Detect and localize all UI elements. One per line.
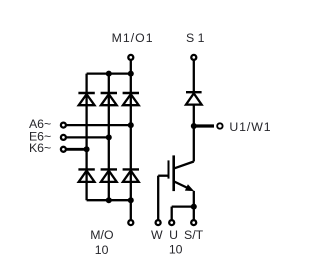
wire bottom rail (negative bus) <box>87 199 131 201</box>
terminal S/T <box>191 220 196 225</box>
wire middle column <box>108 74 110 201</box>
wire stub to U1/W1 terminal <box>194 124 214 127</box>
terminal U1/W1 <box>217 123 222 128</box>
diode bottom-right <box>123 169 139 182</box>
junction K6 / left column <box>84 146 90 152</box>
terminal W <box>156 220 161 225</box>
wire emitter to terminal S/T <box>193 191 195 220</box>
diode top-right <box>123 93 139 105</box>
junction emitter / U branch <box>191 204 197 210</box>
diode bottom-middle <box>101 169 117 182</box>
IGBT body bar <box>172 155 175 191</box>
svg-text:S/T: S/T <box>184 228 204 242</box>
junction E6 / middle column <box>106 134 112 140</box>
wire K6 to left column <box>66 148 86 151</box>
wire bottom rail to M/O terminal <box>130 200 132 219</box>
IGBT collector lead <box>174 162 193 169</box>
wire U branch vertical <box>171 207 173 220</box>
wire left column <box>85 74 87 201</box>
junction top rail / middle column <box>106 71 112 77</box>
wire M1/O1 terminal to top rail <box>130 60 132 73</box>
svg-text:M1/O1: M1/O1 <box>112 31 154 45</box>
wire diode to node U1/W1 <box>193 105 195 126</box>
terminal A6 <box>61 123 66 128</box>
svg-text:K6~: K6~ <box>29 141 51 155</box>
svg-text:U: U <box>169 228 178 242</box>
svg-text:10: 10 <box>95 243 109 257</box>
wire A6 to right column <box>66 124 130 126</box>
IGBT gate lead <box>158 175 167 177</box>
wire node to IGBT collector <box>193 126 195 162</box>
wire U branch horizontal <box>172 205 194 207</box>
diode top-middle <box>101 93 117 105</box>
diode top-left <box>78 93 94 105</box>
wire gate to terminal W <box>157 176 159 220</box>
wire top rail (positive bus) <box>87 72 131 74</box>
IGBT emitter lead <box>174 182 188 189</box>
junction bottom rail / middle column <box>106 197 112 203</box>
terminal M1/O1 <box>128 55 133 60</box>
junction node U1/W1 <box>191 123 197 129</box>
svg-text:U1/W1: U1/W1 <box>229 120 271 134</box>
IGBT emitter arrowhead <box>185 184 194 191</box>
terminal U <box>169 220 174 225</box>
junction A6 / right column <box>128 122 134 128</box>
svg-text:S 1: S 1 <box>186 31 205 45</box>
terminal S1 <box>191 55 196 60</box>
diode bottom-left <box>78 169 94 182</box>
diode D7 (S1 branch) <box>186 92 202 104</box>
svg-text:10: 10 <box>169 243 183 257</box>
terminal K6 <box>61 147 66 152</box>
wire E6 to middle column <box>66 136 108 138</box>
terminal E6 <box>61 135 66 140</box>
svg-text:W: W <box>151 228 163 242</box>
terminal M/O <box>128 220 133 225</box>
svg-text:M/O: M/O <box>90 228 113 242</box>
IGBT gate bar <box>168 160 170 178</box>
wire S1 terminal to diode <box>193 60 195 92</box>
junction bottom rail / right column <box>128 197 134 203</box>
wire right column <box>130 74 132 201</box>
junction top rail / right column <box>128 71 134 77</box>
